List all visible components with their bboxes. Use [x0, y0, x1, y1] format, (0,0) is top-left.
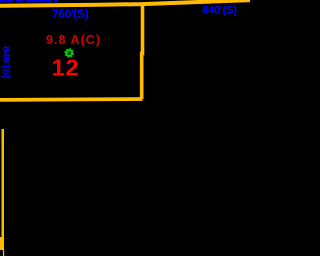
well symbol (green gear) [65, 49, 73, 57]
svg-text:12: 12 [52, 55, 79, 81]
parcel boundary bottom edge [0, 97, 143, 102]
svg-text:760'(S): 760'(S) [52, 7, 89, 21]
clipped blue label fragments along top edge [0, 0, 57, 2]
svg-text:9.8 A(C): 9.8 A(C) [46, 33, 100, 47]
svg-text:840'(S): 840'(S) [202, 4, 237, 16]
parcel boundary top edge [0, 0, 250, 6]
west boundary line lower left [2, 129, 5, 237]
parcel boundary right edge [140, 4, 144, 100]
svg-text:849'(S): 849'(S) [0, 46, 12, 79]
